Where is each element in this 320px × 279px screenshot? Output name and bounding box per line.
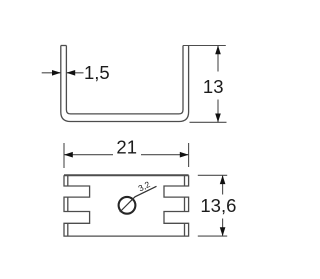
- svg-text:21: 21: [116, 137, 137, 158]
- svg-text:1,5: 1,5: [84, 62, 110, 83]
- svg-text:13: 13: [203, 76, 224, 97]
- svg-text:13,6: 13,6: [200, 195, 236, 216]
- svg-text:3,2: 3,2: [136, 179, 151, 193]
